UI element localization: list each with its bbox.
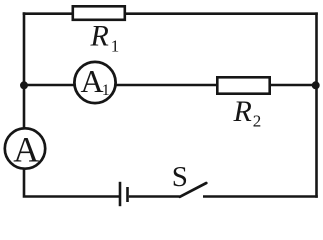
wire: battery to switch	[129, 195, 180, 198]
wire: bottom-left corner segment (ammeter A to battery)	[24, 168, 119, 197]
wire: top side	[23, 12, 318, 15]
wire: middle branch horizontal	[24, 84, 317, 87]
svg-text:S: S	[172, 161, 188, 193]
ammeter A	[5, 128, 45, 168]
resistor R2	[217, 77, 269, 93]
wire: right vertical side	[315, 12, 318, 197]
wire: switch to bottom-right corner	[203, 195, 318, 198]
battery B1 (cell): short plate	[126, 187, 129, 202]
svg-text:A: A	[13, 130, 39, 170]
svg-text:R: R	[233, 95, 252, 128]
svg-text:1: 1	[102, 82, 110, 99]
svg-text:1: 1	[111, 37, 120, 56]
svg-text:R: R	[90, 20, 109, 53]
node: right junction	[312, 81, 320, 89]
resistor R1	[73, 6, 125, 19]
battery B1 (cell): long plate	[119, 182, 122, 206]
ammeter A1	[74, 62, 115, 103]
node: left junction	[20, 81, 28, 89]
wire: left vertical upper (top corner to ammeter A)	[23, 12, 26, 129]
switch S blade (open)	[180, 183, 207, 197]
svg-text:A: A	[81, 63, 104, 99]
svg-text:2: 2	[253, 112, 261, 131]
